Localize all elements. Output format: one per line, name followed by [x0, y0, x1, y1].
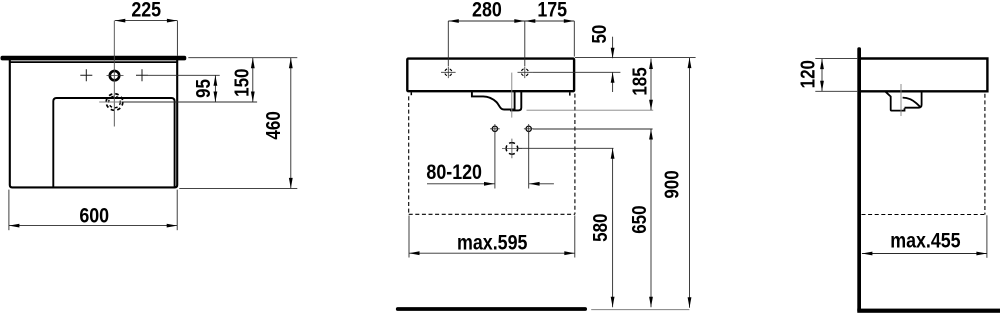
left tap hole crosshair — [441, 67, 456, 79]
drain knockout crosshair — [502, 139, 522, 159]
dimension 120 down arrow — [820, 81, 824, 92]
right fixing hole crosshair — [524, 124, 534, 134]
dimension 95 up arrow — [214, 75, 218, 86]
svg-text:max.455: max.455 — [890, 229, 961, 253]
svg-text:max.595: max.595 — [457, 231, 528, 255]
dimension 175 left arrow — [525, 19, 536, 23]
dimension max.455 line — [862, 253, 987, 255]
dimension 120 top extension line — [815, 58, 857, 60]
dimension 900 down arrow — [688, 297, 692, 308]
right tap hole crosshair — [518, 67, 533, 79]
fixing holes reference line (for 650) — [533, 128, 653, 130]
installation zone dashed right edge — [574, 94, 576, 215]
dimension 175 right extension line — [573, 21, 575, 57]
dimension 150 up arrow — [251, 58, 255, 68]
left fixing hole crosshair — [490, 124, 500, 134]
tap centerline reference line (for 95) — [148, 74, 220, 76]
dimension 185 line — [650, 59, 652, 111]
svg-text:175: 175 — [537, 0, 567, 22]
washbasin outer rim (top view) — [10, 58, 177, 187]
floor reference thin line (front view) — [591, 309, 689, 311]
dimension 185 down arrow — [649, 100, 653, 111]
siphon bottom reference line (for 185) — [527, 109, 654, 111]
dimension 50 down arrow — [611, 48, 615, 59]
installation zone dashed bottom edge — [409, 213, 575, 215]
svg-text:900: 900 — [660, 170, 683, 198]
dimension 175 right arrow — [564, 19, 575, 23]
dimension 50 upper line — [612, 37, 614, 59]
dimension max.455 left arrow — [862, 252, 873, 256]
dimension 280/175 middle extension line — [524, 21, 526, 66]
installation zone dashed left edge — [408, 96, 410, 214]
left fixing hole — [492, 126, 497, 131]
bowl underside curve (side view) — [903, 98, 921, 108]
dimension 650 up arrow — [649, 129, 653, 140]
dimension 460 line — [290, 58, 292, 189]
ceramic lip tick left — [410, 92, 412, 95]
back rail reference line (for 150/460) — [188, 57, 297, 59]
dimension max.455 right extension line — [986, 215, 988, 257]
svg-text:225: 225 — [131, 0, 161, 22]
drain vertical centerline (front view) — [511, 73, 513, 118]
tap hole horizontal crosshair — [107, 74, 124, 76]
svg-text:280: 280 — [472, 0, 502, 22]
left alternative tap mark (plus) — [80, 69, 92, 81]
installation depth dashed horizontal line — [862, 214, 985, 216]
dimension 650 line — [650, 129, 652, 307]
dimension 80-120 right-pointing arrow — [484, 182, 495, 186]
dimension 80-120 right tail — [529, 183, 554, 185]
dimension 280 left arrow — [448, 19, 459, 23]
svg-text:150: 150 — [230, 69, 253, 97]
bowl underside and drain pipe (side view) — [886, 92, 905, 111]
dimension 150 down arrow — [251, 92, 255, 103]
dimension 225 right extension line — [176, 21, 178, 56]
svg-text:120: 120 — [796, 60, 819, 88]
dimension 280/175 line — [448, 20, 574, 22]
dimension 95 line — [214, 75, 216, 102]
dimension 120 up arrow — [820, 59, 824, 70]
right fixing hole — [526, 126, 531, 131]
ceramic lip tick right — [569, 92, 571, 95]
drain centerline (side view) — [900, 84, 902, 116]
svg-text:95: 95 — [191, 79, 214, 98]
wall line (side view) — [857, 47, 861, 312]
dimension 460 up arrow — [289, 58, 293, 68]
washbasin body (front view) — [407, 59, 574, 92]
dimension 460 down arrow — [289, 178, 293, 189]
tap centerline reference line (for 50) — [532, 71, 620, 73]
dimension max.595 left arrow — [409, 251, 420, 255]
dimension 225 right arrow — [167, 19, 178, 23]
dimension max.595 right extension line — [574, 216, 576, 258]
dimension 120 bottom extension line — [815, 90, 857, 92]
dimension 185 up arrow — [649, 59, 653, 70]
rim inner back edge (top view) — [10, 61, 177, 63]
dimension 225 line — [115, 20, 178, 22]
dimension max.595 line — [409, 252, 575, 254]
dimension max.455 right arrow — [976, 252, 987, 256]
dimension 50 up arrow — [611, 72, 615, 83]
bowl underside and drain pipe (front view hidden outline) — [472, 92, 515, 110]
svg-text:600: 600 — [79, 204, 109, 228]
dimension 80-120 left tail — [427, 183, 495, 185]
floor line (front view, thick) — [396, 307, 587, 311]
right alternative tap mark (plus) — [136, 69, 148, 81]
svg-text:650: 650 — [628, 205, 651, 233]
dimension 600 left arrow — [9, 224, 20, 228]
front edge reference line (for 460) — [179, 187, 297, 189]
dimension 80-120 left-pointing arrow — [529, 182, 540, 186]
drain outer dashed circle — [106, 94, 123, 111]
dimension 150 line — [252, 58, 254, 102]
dimension 900 line — [689, 58, 691, 308]
right fixing hole drop line — [528, 132, 530, 188]
washbasin body (side view) — [861, 59, 988, 92]
drain skirt right side (side view) — [905, 92, 922, 108]
rim top reference line (for 50/185/900) — [575, 57, 696, 59]
dimension 650 down arrow — [649, 297, 653, 308]
drain pipe right side (front view) — [510, 92, 521, 111]
dimension 580 up arrow — [611, 148, 615, 159]
vertical centerline through tap and drain — [113, 21, 115, 127]
dimension 225 left arrow — [115, 19, 126, 23]
right tap hole (front view) circle — [521, 69, 528, 76]
washbasin back rail (top view, thick bar) — [1, 56, 187, 61]
dimension max.595 left extension line — [408, 216, 410, 258]
dimension 580 line — [612, 148, 614, 307]
installation depth dashed vertical line — [984, 94, 986, 215]
dimension 95 down arrow — [214, 92, 218, 103]
dimension 280 right arrow — [514, 19, 525, 23]
dimension 900 up arrow — [688, 58, 692, 69]
dimension 580 down arrow — [611, 297, 615, 308]
left tap hole (front view) circle — [445, 69, 452, 76]
svg-text:580: 580 — [589, 214, 612, 242]
svg-text:50: 50 — [588, 25, 611, 44]
drain knockout dashed circle — [506, 143, 518, 155]
dimension 600 right extension line — [176, 190, 178, 231]
dimension 50 lower line — [612, 72, 614, 92]
svg-text:185: 185 — [628, 67, 651, 95]
tap hole (top view) — [110, 71, 119, 80]
dimension 280 left extension line — [447, 21, 449, 66]
drain centerline reference line (for 95/150) — [122, 101, 257, 103]
floor line (side view, thick) — [857, 309, 1000, 313]
dimension 120 line — [821, 59, 823, 92]
dimension 600 line — [9, 225, 177, 227]
dimension max.595 right arrow — [564, 251, 575, 255]
dimension 600 left extension line — [8, 190, 10, 231]
horizontal centerline through drain — [99, 101, 132, 103]
dimension 600 right arrow — [167, 224, 178, 228]
knockout reference line (for 580) — [518, 147, 613, 149]
svg-text:80-120: 80-120 — [426, 161, 482, 185]
svg-text:460: 460 — [262, 111, 285, 139]
basin inner bowl edge (top view) — [53, 98, 174, 187]
left fixing hole drop line — [494, 132, 496, 188]
drain inner dashed circle — [109, 96, 121, 108]
